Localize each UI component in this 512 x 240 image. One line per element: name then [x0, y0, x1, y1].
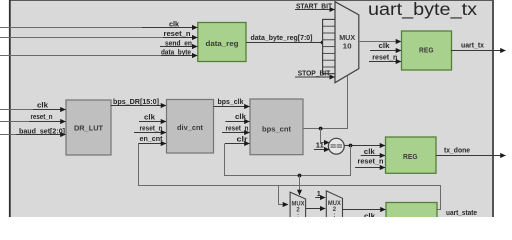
svg-text:clk: clk: [364, 211, 375, 217]
svg-text:clk: clk: [379, 41, 390, 50]
svg-text:send_en: send_en: [165, 38, 192, 47]
svg-text:data_reg: data_reg: [206, 39, 239, 48]
svg-text:REG: REG: [419, 46, 434, 55]
svg-text:data_byte: data_byte: [161, 48, 191, 57]
svg-text:11: 11: [316, 140, 324, 149]
svg-text:clk: clk: [144, 113, 155, 122]
svg-text:==: ==: [330, 142, 343, 151]
svg-text::: :: [333, 213, 335, 217]
svg-text:clk: clk: [364, 147, 375, 156]
svg-text:en_cnt: en_cnt: [140, 134, 164, 143]
svg-text:bps_cnt: bps_cnt: [262, 125, 291, 134]
svg-text:START_BIT: START_BIT: [296, 1, 333, 10]
svg-text:bps_clk: bps_clk: [218, 97, 244, 106]
svg-text:clr: clr: [237, 134, 248, 143]
svg-text:clk: clk: [37, 100, 48, 109]
svg-text:DR_LUT: DR_LUT: [74, 123, 103, 132]
svg-text:bps_DR[15:0]: bps_DR[15:0]: [113, 97, 159, 106]
svg-text:baud_set[2:0]: baud_set[2:0]: [19, 126, 65, 135]
svg-text:reset_n: reset_n: [31, 112, 53, 121]
svg-text:reset_n: reset_n: [164, 29, 191, 38]
svg-text:STOP_BIT: STOP_BIT: [298, 68, 331, 77]
svg-text:REG: REG: [403, 152, 418, 161]
svg-text:clk: clk: [169, 19, 179, 28]
svg-text:uart_tx: uart_tx: [461, 40, 484, 49]
svg-text::: :: [297, 213, 299, 217]
svg-text:reset_n: reset_n: [226, 123, 249, 132]
svg-text:tx_done: tx_done: [444, 146, 470, 155]
svg-text:div_cnt: div_cnt: [177, 123, 203, 132]
svg-text:uart_byte_tx: uart_byte_tx: [368, 0, 477, 19]
svg-text:data_byte_reg[7:0]: data_byte_reg[7:0]: [251, 33, 313, 42]
svg-text:reset_n: reset_n: [140, 123, 163, 132]
svg-text:10: 10: [343, 41, 352, 50]
svg-text:reset_n: reset_n: [372, 52, 397, 61]
svg-text:1: 1: [317, 189, 321, 198]
svg-text:uart_state: uart_state: [446, 208, 477, 217]
svg-text:reset_n: reset_n: [358, 157, 384, 166]
svg-text:clk: clk: [235, 112, 246, 121]
